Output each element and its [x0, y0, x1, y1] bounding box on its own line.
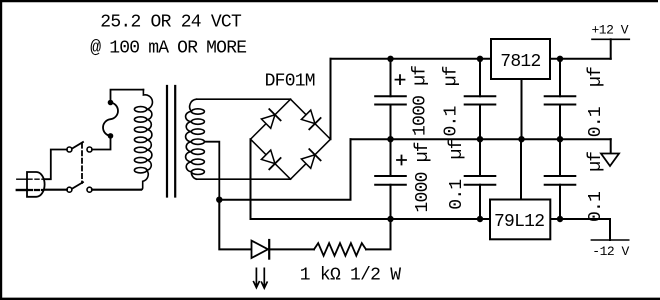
ground symbol	[610, 139, 612, 153]
capacitor C5 0.1uf rail	[559, 59, 561, 139]
wire top rail left segment (+ unregulated)	[331, 58, 492, 60]
transformer T1 primary winding	[134, 90, 152, 190]
border frame bottom	[0, 298, 660, 300]
wire plug upper to switch pole	[44, 150, 67, 180]
svg-text:+12 V: +12 V	[592, 22, 629, 37]
bridge diode D4 (lower-right)	[301, 149, 320, 168]
svg-text:0.1 µf: 0.1 µf	[442, 66, 462, 136]
switch S1 lower pole contact	[67, 187, 72, 192]
bridge diode D3 (lower-left)	[261, 150, 280, 169]
junction dot bottom rail / C4	[477, 216, 483, 222]
wire secondary bottom to bridge AC2	[197, 178, 291, 180]
AC plug P1 body	[27, 172, 45, 197]
junction dot mid rail / U1 gnd	[518, 136, 524, 142]
wire secondary centre tap	[204, 142, 219, 200]
wire +12V terminal to top rail	[610, 39, 612, 59]
capacitor C1 plates	[375, 96, 406, 104]
switch S1 gang link (dashed)	[81, 144, 83, 184]
switch S1 upper lever	[72, 142, 83, 149]
LED D5 emission arrow 1	[254, 268, 260, 287]
wire bottom rail left segment (- unregulated)	[251, 218, 490, 220]
svg-text:25.2 OR 24 VCT: 25.2 OR 24 VCT	[100, 13, 242, 33]
wire secondary top to bridge AC1	[197, 98, 291, 100]
resistor R1 1k zigzag	[314, 243, 366, 256]
junction dot centre tap	[216, 197, 222, 203]
capacitor C4 0.1uf rail (lower)	[479, 139, 481, 219]
junction dot mid rail / C3	[477, 136, 483, 142]
capacitor C3 plates	[465, 96, 496, 104]
AC plug lower prong hidden (dashed)	[28, 189, 43, 191]
capacitor C2 1000uf rail (lower)	[390, 139, 392, 219]
fuse F1 top terminal dot	[108, 100, 114, 106]
regulator U1 7812 box	[491, 39, 550, 79]
-12V output terminal bar	[591, 239, 629, 241]
wire switch upper throw to fuse	[92, 138, 111, 150]
junction dot top rail / C3	[477, 56, 483, 62]
svg-text:79L12: 79L12	[494, 212, 544, 232]
switch S1 lower lever	[72, 182, 83, 189]
wire switch lower throw to primary bottom	[92, 189, 141, 191]
svg-text:-12 V: -12 V	[592, 244, 629, 259]
junction dot mid rail / C5	[557, 136, 563, 142]
junction dot top rail / C1	[387, 56, 393, 62]
switch S1 upper throw contact	[87, 147, 92, 152]
svg-text:0.1 µf: 0.1 µf	[447, 139, 467, 209]
AC plug upper prong hidden (dashed)	[28, 178, 43, 180]
svg-text:7812: 7812	[500, 52, 540, 72]
switch S1 upper pole contact	[67, 147, 72, 152]
junction dot top rail / C5	[557, 56, 563, 62]
wire mid rail (ground bus)	[351, 138, 611, 140]
capacitor C1 + sign	[396, 75, 405, 84]
capacitor C2 plates	[375, 176, 406, 185]
+12V output terminal bar	[592, 38, 629, 40]
AC plug lower prong	[17, 189, 27, 191]
svg-text:1000 µf: 1000 µf	[411, 66, 431, 136]
svg-text:0.1 µf: 0.1 µf	[586, 152, 606, 222]
capacitor C3 0.1uf rail	[479, 59, 481, 139]
capacitor C1 1000uf rail	[390, 59, 392, 139]
bridge diode D2 (upper-right)	[301, 110, 320, 129]
switch S1 lower throw contact	[87, 187, 92, 192]
junction dot mid rail / C1	[387, 136, 393, 142]
junction dot bottom rail / C6	[557, 216, 563, 222]
fuse F1 bottom terminal dot	[108, 133, 114, 139]
svg-text:1000 µf: 1000 µf	[413, 142, 433, 212]
AC plug upper prong	[17, 178, 27, 180]
border frame top	[0, 0, 658, 2]
regulator U2 ground pin	[520, 139, 522, 199]
fuse F1 body (S-curve)	[103, 103, 118, 136]
wire fuse to primary top	[111, 90, 144, 103]
LED D5 cathode bar	[268, 240, 270, 259]
wire bridge + output to top rail	[330, 59, 332, 139]
bridge diode D1 (upper-left)	[261, 109, 280, 128]
regulator U2 79L12 box	[490, 200, 550, 240]
capacitor C2 + sign	[397, 156, 406, 165]
transformer T1 secondary winding	[186, 99, 205, 179]
border frame left	[0, 0, 2, 300]
svg-text:@ 100 mA OR MORE: @ 100 mA OR MORE	[90, 39, 246, 59]
svg-text:1 kΩ 1/2 W: 1 kΩ 1/2 W	[300, 266, 401, 286]
LED D5 emission arrow 2	[262, 268, 268, 288]
wire centre tap to ground bus	[219, 139, 350, 200]
LED D5 triangle	[252, 241, 269, 258]
wire top rail right segment (7812 out to +12V)	[550, 58, 611, 60]
bridge rectifier DF01M diamond	[251, 99, 331, 179]
wire plug lower to switch lower pole	[45, 189, 67, 191]
wire bridge - output down	[250, 139, 252, 219]
capacitor C6 plates	[545, 176, 576, 185]
svg-text:0.1 µf: 0.1 µf	[586, 67, 606, 137]
transformer T1 core	[167, 86, 175, 197]
svg-text:DF01M: DF01M	[265, 72, 315, 92]
wire LED to resistor	[269, 248, 314, 250]
wire centre tap down to LED branch	[219, 200, 250, 250]
junction dot bottom rail / C2	[387, 216, 393, 222]
capacitor C5 plates	[545, 96, 576, 104]
wire bottom rail right segment (79L12 out)	[550, 219, 610, 240]
regulator U1 ground pin	[521, 79, 523, 139]
capacitor C6 0.1uf rail (lower)	[559, 139, 561, 219]
wire resistor to negative rail	[366, 219, 391, 249]
capacitor C4 plates	[465, 176, 496, 185]
